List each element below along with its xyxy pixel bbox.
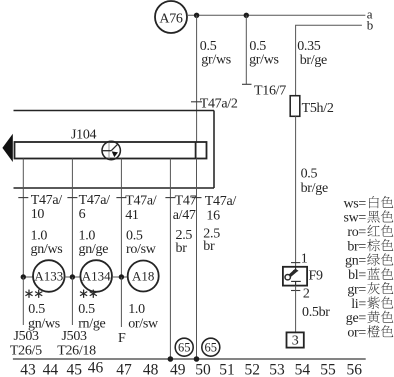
node: junction dot wire2/A134 <box>70 274 75 279</box>
sensor A134 <box>80 260 112 292</box>
svg-text:10: 10 <box>31 207 45 222</box>
label 0.5 gn/ws (wire1) <box>28 302 60 331</box>
svg-text:65: 65 <box>178 341 191 355</box>
label wire size 2.5 br <box>176 228 193 256</box>
svg-text:65: 65 <box>205 341 218 355</box>
node: dot T47a/47 wire on rail <box>168 356 174 362</box>
svg-text:47: 47 <box>116 362 132 377</box>
svg-text:sw=: sw= <box>343 211 366 226</box>
pin T47a/6 tick <box>67 197 77 199</box>
J104 internal relay bar <box>15 142 207 159</box>
wire: 0.5 gr/ws from line a down to J104 pin T47a/2 <box>196 15 198 142</box>
svg-text:45: 45 <box>66 362 82 377</box>
svg-text:0.5: 0.5 <box>28 302 45 317</box>
current track numbers 43-56 <box>20 360 362 377</box>
svg-text:bl=: bl= <box>348 268 366 283</box>
pin T47a/47 tick <box>165 197 175 199</box>
wire T47a/41 <box>120 159 122 278</box>
component A76 (circle) <box>155 1 187 33</box>
label ** (wire2) <box>83 290 85 298</box>
pin T47a/10 tick <box>18 197 28 199</box>
pin T47a/2 tick <box>191 101 202 103</box>
label T47a/16 <box>205 194 237 224</box>
control unit J104 outline top <box>14 110 215 112</box>
label wire size 0.5 ro/sw <box>126 229 157 258</box>
bottom current track rail <box>13 358 366 360</box>
svg-text:T47a/2: T47a/2 <box>200 96 238 111</box>
svg-text:53: 53 <box>269 362 285 377</box>
svg-text:0.5: 0.5 <box>78 302 95 317</box>
svg-text:56: 56 <box>347 362 363 377</box>
label 0.5 rn/ge (wire2) <box>78 302 105 331</box>
svg-text:br/ge: br/ge <box>300 53 327 68</box>
label wire size 0.5 br/ge <box>301 167 328 197</box>
svg-text:or/sw: or/sw <box>128 316 159 331</box>
svg-text:55: 55 <box>320 362 336 377</box>
wire: link A134 to dot3 <box>112 276 128 278</box>
svg-text:J503: J503 <box>14 329 40 344</box>
svg-text:br/ge: br/ge <box>301 181 328 196</box>
svg-text:A76: A76 <box>159 11 183 26</box>
connector T5h/2 (inline connector) <box>290 96 300 117</box>
svg-text:6: 6 <box>79 207 86 222</box>
svg-text:50: 50 <box>195 362 211 377</box>
wire T47a/10 <box>22 159 24 278</box>
label J503 / T26/18 <box>57 329 96 358</box>
sensor A18 <box>128 261 159 292</box>
node: junction dot on line a (left) <box>194 13 199 18</box>
wire: 0.5 gr/ws from line a to T16/7 <box>245 15 247 84</box>
svg-text:a/47: a/47 <box>173 208 196 223</box>
ground terminal 65 (left) <box>175 338 193 356</box>
switch F9 <box>283 267 307 286</box>
label T47a/10 <box>31 193 63 222</box>
svg-text:ro/sw: ro/sw <box>126 242 157 257</box>
svg-text:T5h/2: T5h/2 <box>302 101 334 116</box>
svg-text:2: 2 <box>303 287 310 302</box>
pin 2 tick of F9 <box>291 290 300 292</box>
svg-text:51: 51 <box>219 362 235 377</box>
svg-text:T26/18: T26/18 <box>57 343 96 358</box>
wire: link A133 to dot2 <box>65 276 81 278</box>
continuation arrow (left) <box>2 134 12 162</box>
svg-text:gr/ws: gr/ws <box>201 52 231 67</box>
svg-text:b: b <box>367 18 374 33</box>
node: dot T47a/16 wire on rail <box>194 356 200 362</box>
svg-text:0.35: 0.35 <box>297 39 321 54</box>
svg-text:43: 43 <box>20 362 36 377</box>
label wire size 1.0 gn/ge <box>79 229 109 258</box>
svg-text:T47a/: T47a/ <box>31 193 63 208</box>
svg-text:1: 1 <box>301 252 308 267</box>
svg-text:T26/5: T26/5 <box>10 343 42 358</box>
svg-text:16: 16 <box>206 209 220 224</box>
svg-text:br: br <box>176 241 188 256</box>
svg-text:52: 52 <box>245 362 261 377</box>
label wire size 2.5 br <box>203 226 220 254</box>
svg-text:br=: br= <box>347 239 366 254</box>
svg-text:gr/ws: gr/ws <box>249 52 279 67</box>
svg-text:A133: A133 <box>34 269 63 284</box>
pin T47a/41 tick <box>116 197 126 199</box>
colour code legend <box>343 196 393 341</box>
sensor A133 <box>33 260 65 292</box>
svg-text:F9: F9 <box>309 268 323 283</box>
svg-text:T47a/: T47a/ <box>79 193 111 208</box>
wire: bus line a <box>187 14 365 16</box>
wire below dot2 <box>71 277 73 325</box>
label J503 / T26/5 <box>10 329 42 358</box>
svg-text:44: 44 <box>43 362 59 377</box>
svg-text:T47a/: T47a/ <box>205 194 237 209</box>
node: junction dot wire3/A18 <box>119 274 124 279</box>
label T47a/41 <box>125 194 157 224</box>
J104 bar end divider <box>195 142 197 159</box>
wire below dot1 <box>22 277 24 325</box>
ground designation box 3 <box>287 332 304 348</box>
svg-text:gn/ge: gn/ge <box>79 242 109 257</box>
svg-text:J104: J104 <box>71 128 97 143</box>
svg-text:49: 49 <box>170 362 186 377</box>
wire: link dot1 to A133 <box>23 276 34 278</box>
label wire size 0.5 gr/ws <box>200 39 231 67</box>
wire: bus line b <box>296 25 362 95</box>
label T47a/47 <box>173 194 197 224</box>
svg-text:46: 46 <box>88 360 104 377</box>
svg-text:T47: T47 <box>175 194 197 209</box>
wire: 0.5br from F9 to ground designation 3 <box>295 286 297 333</box>
label wire size 1.0 gn/ws <box>31 229 63 258</box>
label ** (wire1) <box>28 290 30 298</box>
wire T47a/16 <box>196 159 198 360</box>
ground terminal 65 (right) <box>202 338 220 356</box>
svg-text:0.5br: 0.5br <box>302 305 330 320</box>
svg-text:1.0: 1.0 <box>128 302 145 317</box>
svg-text:ws=: ws= <box>343 196 366 211</box>
label 1.0 or/sw (wire3) <box>128 302 159 331</box>
wire below dot3 <box>120 277 122 327</box>
svg-text:0.5: 0.5 <box>301 167 318 182</box>
control unit J104 outline right edge <box>213 111 215 189</box>
svg-text:41: 41 <box>125 208 139 223</box>
svg-text:br: br <box>203 239 215 254</box>
label T47a/6 <box>79 193 111 222</box>
node: junction dot wire1/A133 <box>21 274 26 279</box>
svg-text:3: 3 <box>292 334 299 349</box>
pin T47a/16 tick <box>192 197 202 199</box>
svg-text:T16/7: T16/7 <box>254 84 286 99</box>
svg-text:A18: A18 <box>132 269 154 284</box>
svg-text:gn=: gn= <box>345 254 366 269</box>
wire T47a/6 <box>71 159 73 278</box>
svg-text:ge=: ge= <box>346 311 367 326</box>
svg-text:T47a/: T47a/ <box>125 194 157 209</box>
svg-text:li=: li= <box>351 297 366 312</box>
svg-text:48: 48 <box>143 362 159 377</box>
svg-text:gr=: gr= <box>347 282 366 297</box>
label wire size 0.35 br/ge <box>297 39 327 68</box>
pin 1 tick of F9 <box>291 262 300 264</box>
svg-text:ro=: ro= <box>347 225 366 240</box>
svg-text:gn/ws: gn/ws <box>31 242 63 257</box>
node: junction dot on line a (right) <box>244 13 249 18</box>
svg-text:or=: or= <box>347 326 366 341</box>
svg-text:A134: A134 <box>82 269 111 284</box>
svg-text:J503: J503 <box>62 329 88 344</box>
pump motor symbol in J104 <box>102 141 120 159</box>
label wire size 0.5 gr/ws (2nd) <box>249 39 279 67</box>
svg-text:54: 54 <box>295 362 311 377</box>
wire: br/ge down to F9 <box>295 116 297 266</box>
control unit J104 outline bottom <box>14 187 215 189</box>
pin T16/7 end tick <box>242 83 252 85</box>
wire T47a/47 <box>169 159 171 360</box>
svg-text:F: F <box>118 331 126 346</box>
